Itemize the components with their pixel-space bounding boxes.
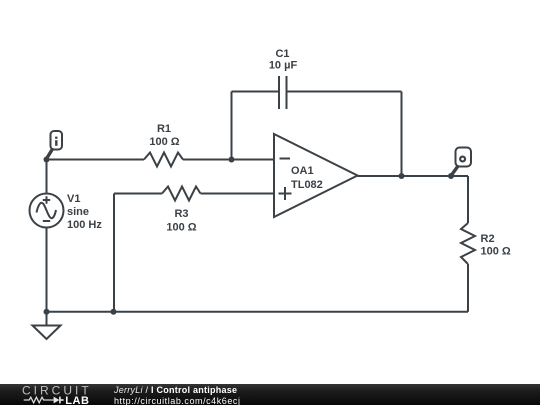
wire bottom ground rail [47, 311, 469, 313]
svg-text:100 Ω: 100 Ω [166, 222, 196, 234]
junction node output flag [448, 173, 454, 179]
label C1 value [269, 48, 298, 72]
wire R3 left vertical down [113, 194, 115, 312]
svg-text:OA1: OA1 [291, 165, 314, 177]
wire feedback right vertical [401, 92, 403, 177]
svg-text:R1: R1 [157, 123, 171, 135]
node o flag [451, 148, 471, 176]
svg-text:100 Ω: 100 Ω [481, 246, 511, 258]
wire op-amp output [358, 175, 469, 177]
label OA1 [291, 165, 323, 191]
svg-text:R2: R2 [481, 233, 495, 245]
wire output right vertical to R2 [467, 176, 469, 223]
junction node feedback output [399, 173, 405, 179]
junction node bottom R3 [111, 309, 117, 315]
svg-text:LAB: LAB [65, 395, 89, 405]
wire V1 bottom [46, 228, 48, 312]
junction node ground [44, 309, 50, 315]
wire R3 to op-amp non-inverting input [201, 193, 275, 195]
junction node at input [44, 157, 50, 163]
wire input node to R1 [47, 159, 145, 161]
wire V1 top [46, 160, 48, 194]
footer bar [0, 384, 540, 405]
node i flag [47, 131, 63, 159]
svg-text:sine: sine [67, 206, 89, 218]
label R2 value [481, 233, 511, 258]
junction node feedback tap [229, 157, 235, 163]
svg-text:R3: R3 [174, 208, 188, 220]
attribution text [114, 385, 241, 405]
label R1 value [149, 123, 179, 148]
CircuitLab logo [20, 384, 120, 405]
op-amp OA1 [274, 134, 358, 217]
wire left to R3 [114, 193, 162, 195]
wire R2 to bottom [467, 264, 469, 312]
wire feedback top left [232, 91, 280, 93]
resistor R1 [144, 153, 183, 167]
svg-text:10 µF: 10 µF [269, 60, 298, 72]
svg-text:C1: C1 [275, 48, 289, 60]
wire R1 to op-amp inverting input [183, 159, 274, 161]
label V1 value [67, 193, 102, 231]
resistor R3 [162, 187, 201, 201]
svg-text:100 Ω: 100 Ω [149, 136, 179, 148]
wire feedback left vertical [231, 92, 233, 160]
svg-text:TL082: TL082 [291, 179, 323, 191]
resistor R2 [461, 223, 475, 264]
svg-text:V1: V1 [67, 193, 80, 205]
voltage source V1 [30, 194, 64, 228]
wire feedback top right [287, 91, 402, 93]
svg-text:100 Hz: 100 Hz [67, 219, 102, 231]
label R3 value [166, 208, 196, 234]
ground [46, 312, 48, 326]
capacitor C1 [278, 76, 280, 109]
